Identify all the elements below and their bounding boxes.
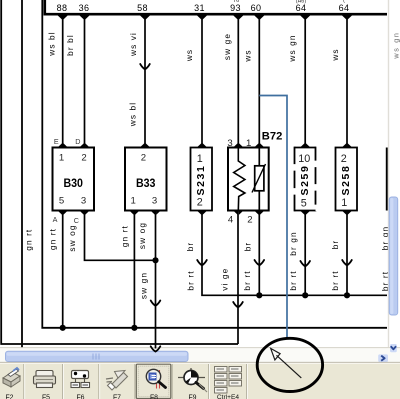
svg-text:br bl: br bl [65,34,75,56]
icon F5: printer [34,371,56,388]
component B33 [125,143,167,215]
svg-text:B33: B33 [136,176,156,190]
wire B72 pin 2 down [258,211,260,296]
svg-text:ws gn: ws gn [392,31,400,59]
svg-text:58: 58 [137,3,148,13]
svg-text:ws: ws [330,48,340,61]
svg-text:Ctrl+E4: Ctrl+E4 [217,394,240,399]
icon F9: measure lens [178,368,207,392]
svg-text:5: 5 [301,197,307,209]
wire S259 pin 5 down [304,211,306,296]
bus pin connectors [58,15,68,19]
svg-text:gn rt: gn rt [119,225,129,247]
wire B33 pin 3 down sw gn [155,211,157,345]
svg-text:br: br [330,240,340,250]
node dot gn rt rail B33pin1 [131,325,137,331]
svg-text:br: br [242,242,252,252]
node dot gn rt rail B30A [60,325,66,331]
svg-text:1: 1 [59,153,64,164]
svg-text:(: ( [343,0,345,4]
horizontal scrollbar row [0,348,400,362]
lower wire labels [24,222,391,299]
svg-text:br gn: br gn [288,231,298,255]
svg-text:S231: S231 [195,165,207,196]
svg-text:60: 60 [251,3,262,13]
svg-text:F9: F9 [188,394,196,399]
wire bus to B72 pin 1 [258,15,260,148]
toolbar labels [5,394,239,399]
svg-text:B72: B72 [262,131,283,143]
svg-text:ws bl: ws bl [46,31,56,56]
svg-text:br rt: br rt [185,270,195,290]
svg-text:sw og: sw og [137,222,147,249]
lower chevrons [197,260,207,265]
icon F6: control units [71,371,90,388]
svg-text:br rt: br rt [288,270,298,290]
wire bus to S258 [346,15,348,148]
wire bus to B72 pin 3 [237,15,239,148]
svg-text:88: 88 [57,3,68,13]
svg-text:S259: S259 [299,165,311,196]
annotation arrow [271,348,302,378]
svg-text:93: 93 [230,3,241,13]
svg-text:4: 4 [228,215,234,226]
svg-text:3: 3 [81,196,86,207]
wire bus to B30 pin D [84,15,86,148]
svg-text:vi ge: vi ge [219,268,229,291]
svg-text:S258: S258 [340,165,352,196]
icon F7: connector tool [106,371,128,391]
node dot B33pin3/sw gn [152,257,158,263]
h-scroll thumb [6,351,189,361]
svg-text:br: br [185,242,195,252]
wire left border line 1 [1,0,238,344]
thermistor [258,148,260,211]
svg-text:D: D [75,137,80,146]
svg-text:ws: ws [184,49,194,62]
wire B72 pin 4 down [237,211,239,345]
wire S258 pin 1 down [346,211,348,296]
resistor zigzag [234,148,245,211]
icon F2: label printer with pen [3,368,20,387]
upper wire labels (rotated) [46,31,340,127]
h-scroll right arrow button [378,354,388,362]
wire bus to S259 [304,15,306,148]
node dot br rail S258 [344,292,350,298]
svg-text:2: 2 [247,215,252,226]
icon Ctrl+E4: key list [215,367,242,394]
wire bus to B30 pin E [62,15,64,148]
svg-text:ws bl: ws bl [128,102,138,127]
node dot br rail B72pin2 [256,292,262,298]
annotation ellipse [257,338,322,391]
svg-text:B30: B30 [63,176,83,190]
button separators [24,364,247,399]
svg-text:F2: F2 [5,394,13,399]
svg-text:(A6): (A6) [296,0,307,5]
clipped tiny text above [233,0,345,5]
svg-text:64: 64 [339,3,350,13]
svg-text:T6: T6 [233,0,239,4]
blue highlight wire [259,96,287,338]
svg-text:F5: F5 [42,394,50,399]
svg-text:E: E [54,137,59,146]
svg-text:10: 10 [298,153,310,165]
wire left line 2 [21,0,23,353]
component B30 [53,137,95,225]
F8 pressed button frame [136,364,171,398]
wire bus to S231 [201,15,203,148]
terminal arrow sw gn over chrome [155,344,157,349]
svg-text:gn rt: gn rt [24,229,34,251]
svg-text:sw ge: sw ge [222,33,232,60]
wire S231 down to ground rail [202,211,387,296]
svg-text:gn rt: gn rt [48,228,58,250]
svg-text:br rt: br rt [330,270,340,290]
partial box edge right [386,148,388,211]
bus box edge [45,0,387,14]
svg-text:F7: F7 [113,394,121,399]
svg-text:C: C [74,216,79,225]
svg-text:A: A [53,215,58,224]
bus pin numbers [57,3,350,13]
svg-text:ws vi: ws vi [128,32,138,57]
svg-text:5: 5 [59,196,64,207]
wire left line 3 gn rt [42,0,387,328]
icon F8: search wiring [146,369,165,388]
node dot br rail S259 [302,292,308,298]
svg-text:F8: F8 [150,394,158,399]
svg-text:1: 1 [131,196,136,207]
content right edge [388,0,390,347]
svg-text:ws: ws [242,49,252,62]
svg-text:sw og: sw og [67,224,77,251]
svg-text:2: 2 [341,153,347,165]
svg-text:1: 1 [246,138,251,149]
svg-text:F6: F6 [76,394,84,399]
wire B33 pin 1 down [133,211,135,328]
svg-text:3: 3 [152,196,157,207]
wire bus to B33 pin 2 [144,15,146,148]
v-scroll down arrow button [390,344,397,352]
svg-text:3: 3 [227,138,232,149]
component S259 (dashed) [295,143,317,215]
chevron on ws vi wire [140,64,150,69]
component S231 [191,143,213,215]
vertical scrollbar thumb [389,197,398,315]
svg-text:2: 2 [141,153,146,164]
svg-text:36: 36 [79,3,90,13]
component B72 [227,131,282,226]
svg-text:br rt: br rt [242,270,252,290]
svg-text:sw gn: sw gn [139,272,149,299]
svg-text:ws gn: ws gn [287,34,297,62]
svg-text:1: 1 [341,197,347,209]
svg-text:1: 1 [197,153,203,165]
wire B30 pin A down [62,211,64,328]
wire B30 pin C to B33 pin3 junction [85,211,156,261]
svg-text:31: 31 [194,3,205,13]
svg-text:2: 2 [197,197,203,209]
component S258 [336,143,358,215]
svg-text:2: 2 [81,153,86,164]
